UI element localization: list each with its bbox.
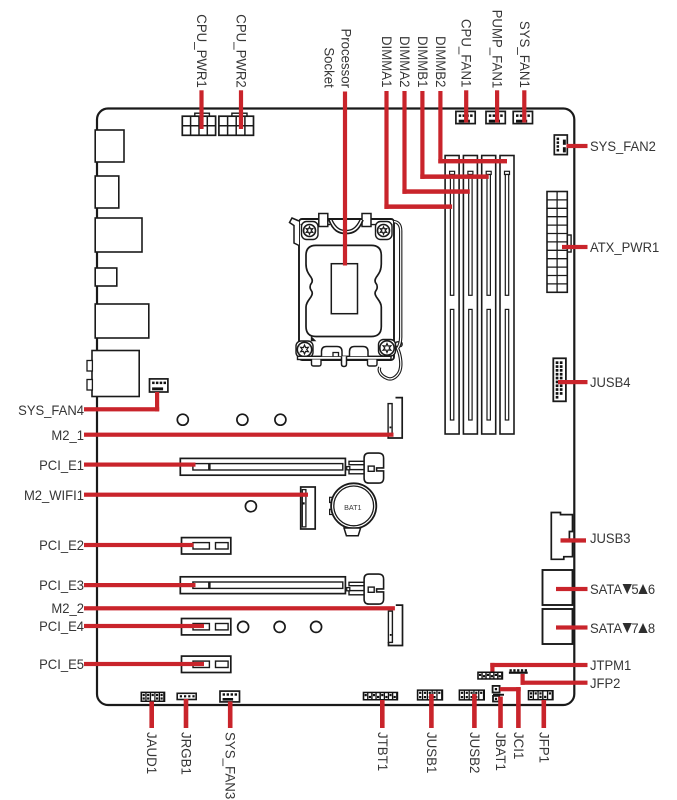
svg-text:BAT1: BAT1 bbox=[344, 503, 361, 512]
